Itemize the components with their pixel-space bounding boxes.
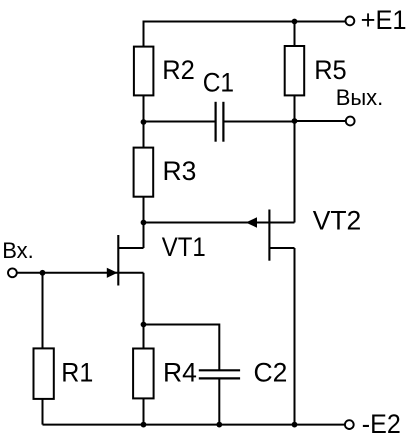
capacitor C2: [199, 370, 240, 378]
wire node to C2 branch: [144, 325, 220, 371]
svg-text:R5: R5: [314, 55, 347, 85]
wire R3 top lead: [143, 122, 145, 148]
node junction VT1 source R4 C2: [141, 322, 147, 328]
node junction top rail R5: [292, 19, 298, 25]
terminal input: [8, 268, 17, 277]
svg-text:C1: C1: [203, 68, 234, 98]
node junction VT2 source bottom rail: [292, 422, 298, 428]
resistor R5: [285, 46, 305, 95]
svg-text:-E2: -E2: [362, 409, 401, 439]
wire R5 bottom lead: [294, 95, 296, 121]
node junction R4 bottom rail: [141, 422, 147, 428]
wire output to terminal: [295, 120, 346, 122]
wire node down to VT1 drain: [143, 223, 145, 249]
transistor VT2: [246, 210, 295, 261]
wire R4 bottom lead: [143, 398, 145, 424]
svg-text:R4: R4: [163, 357, 197, 387]
wire output node to VT2 drain: [294, 121, 296, 223]
svg-text:+E1: +E1: [361, 5, 407, 35]
capacitor C1: [216, 102, 224, 142]
svg-text:C2: C2: [254, 357, 288, 387]
resistor R1: [34, 348, 54, 399]
wire C2 bottom lead: [218, 378, 220, 424]
wire C1 left lead: [144, 121, 216, 123]
svg-text:R3: R3: [163, 156, 197, 186]
svg-text:Вых.: Вых.: [336, 85, 384, 110]
resistor R2: [134, 47, 154, 96]
wire R3 bottom lead to node: [143, 197, 145, 223]
terminal output: [346, 117, 355, 126]
wire node to VT2 gate: [144, 222, 270, 224]
wire bottom -E2 rail: [43, 424, 345, 426]
node junction C2 bottom rail: [216, 422, 222, 428]
resistor R4: [133, 349, 154, 399]
wire R4 top lead: [143, 325, 145, 349]
svg-text:Вх.: Вх.: [2, 238, 34, 263]
svg-text:VT2: VT2: [313, 205, 362, 235]
svg-text:R1: R1: [61, 358, 93, 388]
wire input terminal to VT1 gate: [17, 272, 118, 274]
svg-text:VT1: VT1: [162, 232, 206, 262]
node junction output: [292, 118, 298, 124]
terminal +E1: [346, 17, 355, 26]
transistor VT1: [107, 235, 144, 286]
wire R2 bottom lead: [143, 95, 145, 122]
resistor R3: [134, 148, 154, 197]
node junction R2 R3 C1: [141, 119, 147, 125]
node junction input R1: [40, 270, 46, 276]
wire VT1 source down to node: [143, 273, 145, 325]
terminal -E2: [345, 420, 354, 429]
wire R1 bottom lead: [42, 399, 44, 425]
wire R1 top lead: [42, 273, 44, 349]
wire C1 right lead: [223, 121, 294, 123]
node junction R3 VT1 VT2 gate: [141, 220, 147, 226]
wire R5 top lead: [294, 22, 296, 47]
svg-text:R2: R2: [162, 55, 195, 85]
wire top +E1 rail: [144, 22, 346, 47]
wire VT2 source down: [294, 248, 296, 425]
